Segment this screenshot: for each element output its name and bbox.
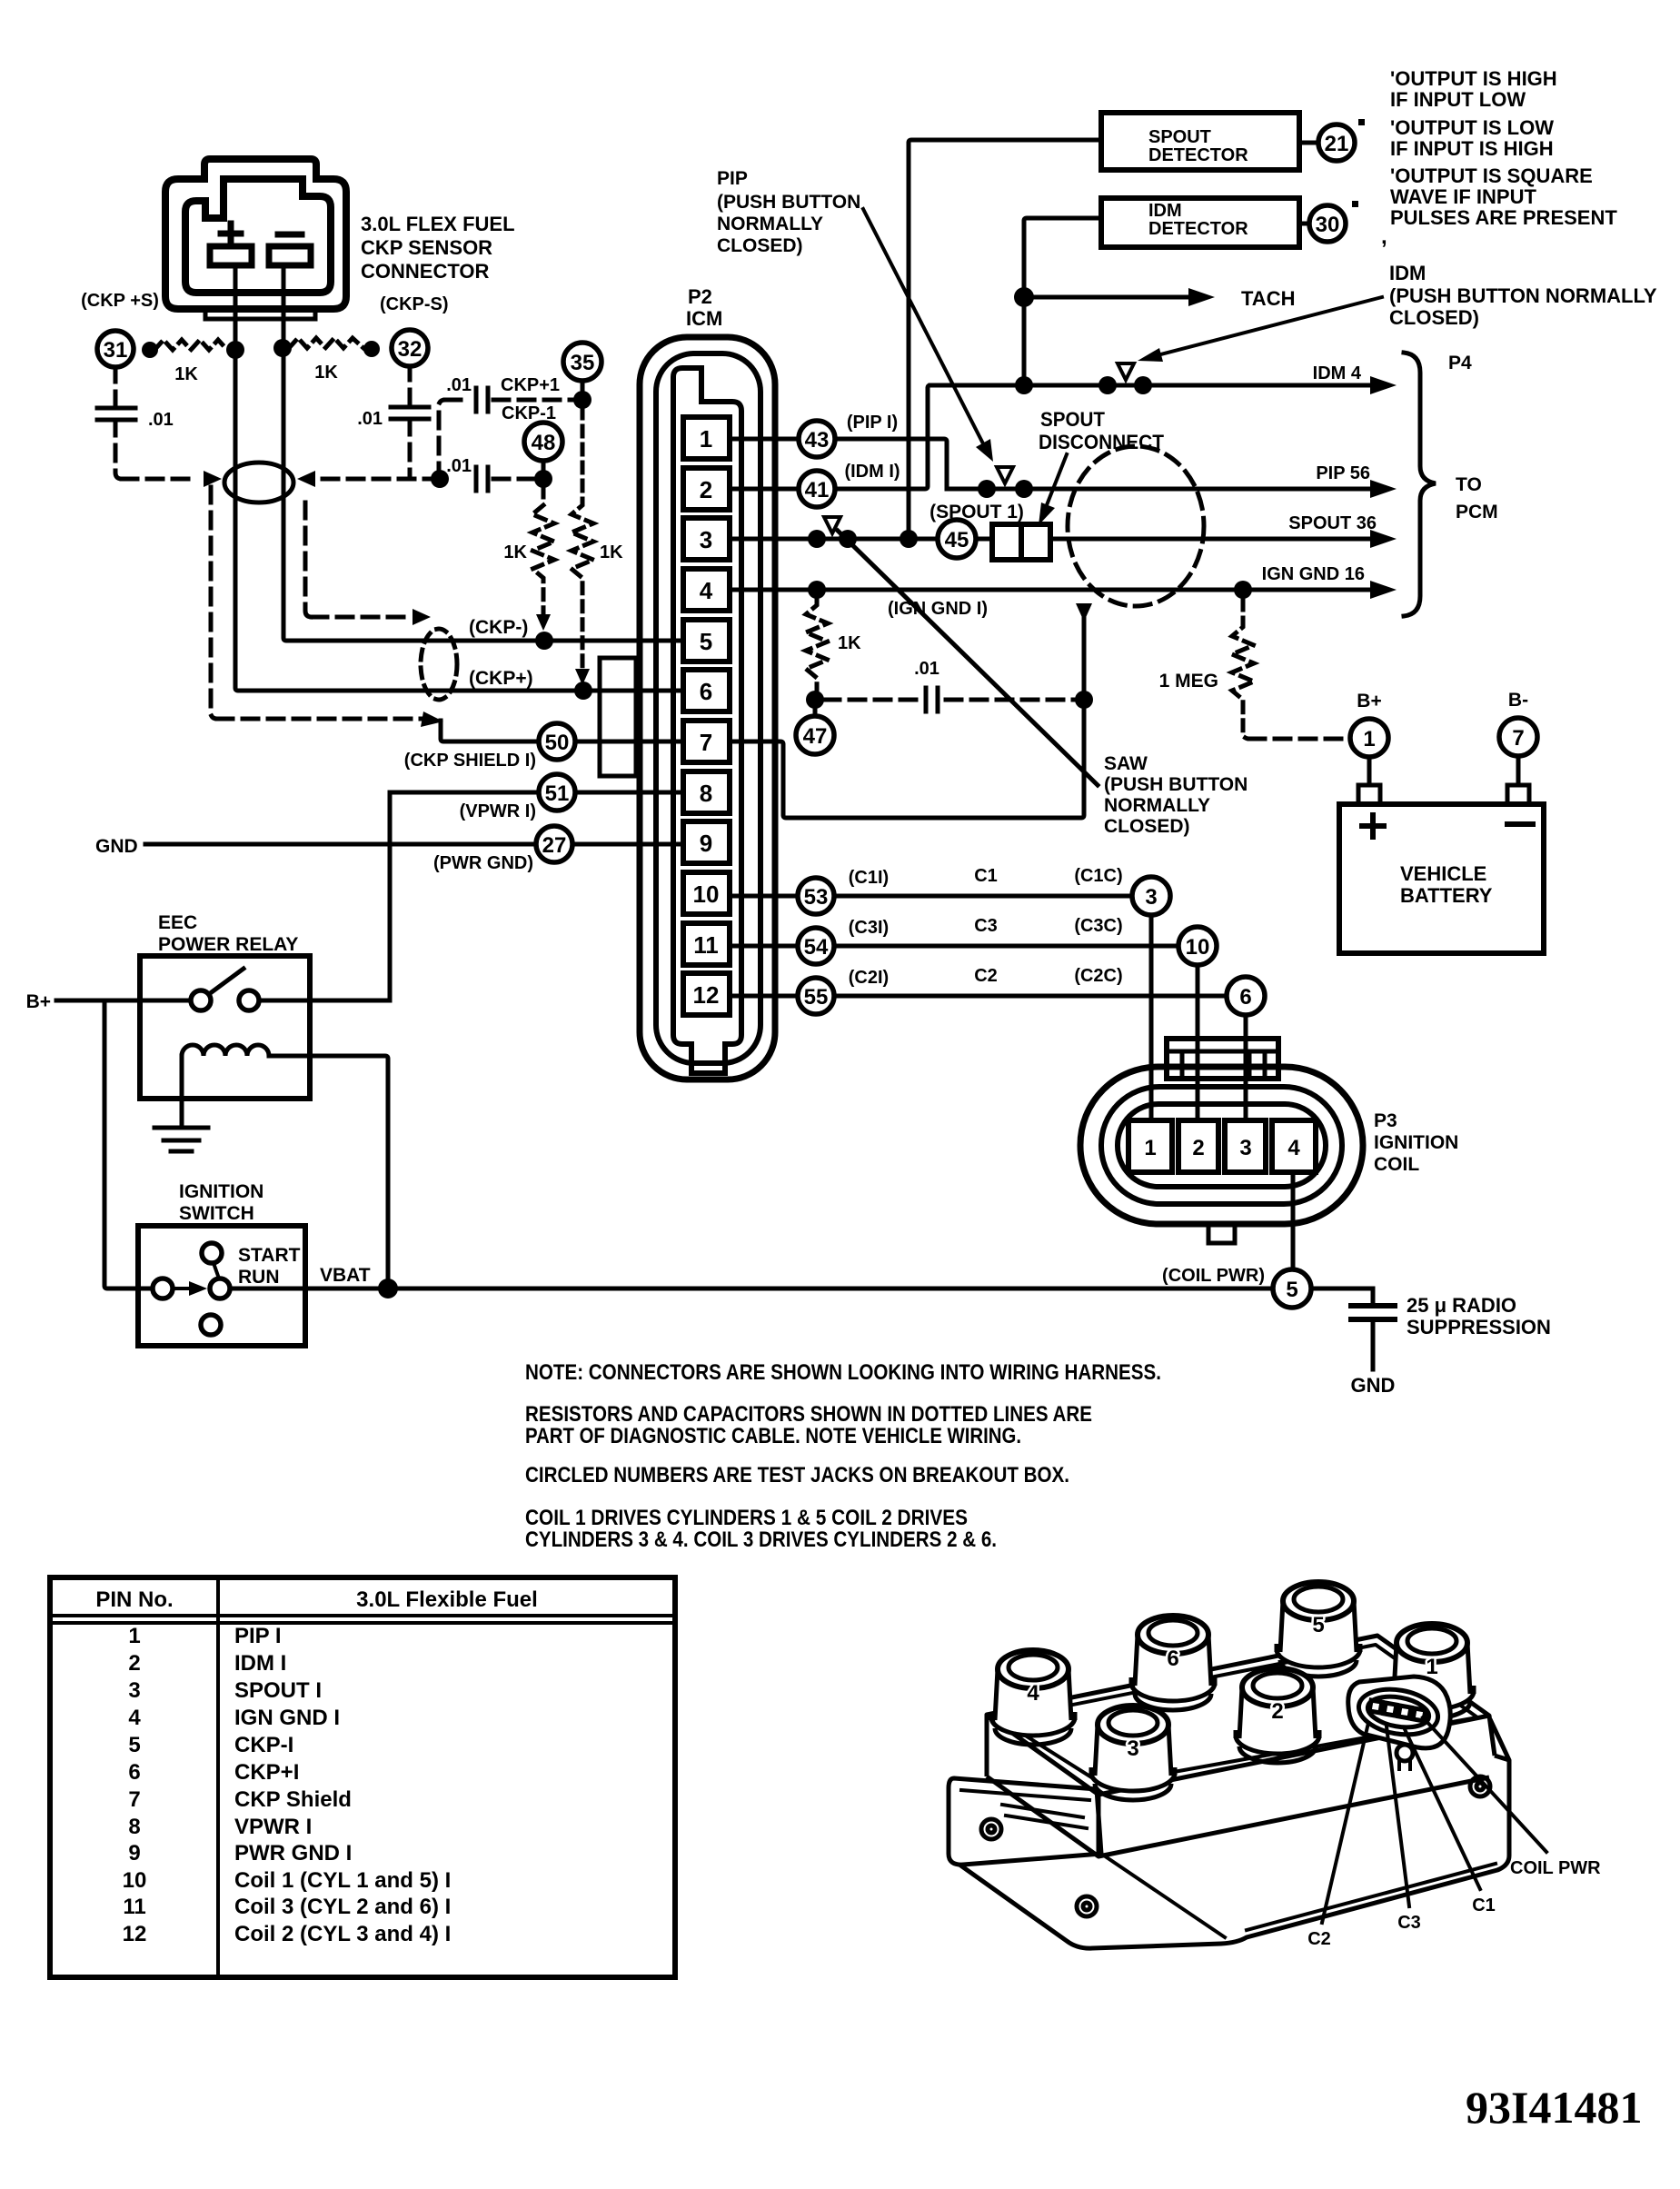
battery minus mark [1507,821,1533,827]
connector P1 CKP sensor inner face with keyway [185,179,331,293]
test jack 50 [539,723,575,760]
coil pack front lower edge [987,1776,1489,1856]
relay coil lead to ground [180,1056,184,1128]
svg-text:3: 3 [1145,885,1157,910]
svg-text:(C2I): (C2I) [849,968,889,988]
resistor 1 MEG dashed from IGN GND line [1232,600,1254,739]
minus symbol [278,232,302,238]
wire CKP shield from dashed arrow to jack 50 and P2 pin 7 [441,721,727,741]
svg-text:IGNITION: IGNITION [179,1181,263,1202]
capacitor .01 under jack 31 [97,408,135,420]
coil pack connector pod [1348,1677,1451,1769]
svg-text:B-: B- [1508,690,1528,711]
wire jack 10 down to coil pin 2 [1196,946,1200,1140]
P2 pin 12 box [683,973,730,1015]
svg-text:IGNITION: IGNITION [1374,1132,1458,1153]
junction dot below jack 48 [534,470,552,488]
svg-text:(C3I): (C3I) [849,918,889,938]
svg-text:1K: 1K [174,364,198,384]
leader line C1 [1405,1729,1480,1889]
svg-text:7: 7 [700,729,712,756]
svg-text:50: 50 [545,731,570,755]
svg-text:P2: P2 [688,285,712,308]
dashed bus segment toward twist oval right [313,477,440,482]
connector P2 middle shell [656,353,760,1063]
svg-text:CYLINDERS 3 & 4. COIL 3 DRIVES: CYLINDERS 3 & 4. COIL 3 DRIVES CYLINDERS… [525,1527,997,1552]
mounting tab inner line [961,1790,1089,1800]
wire pin 7 loop to shield drain [727,618,1084,818]
dashed CKP+1 line right part to jack 35 [493,398,576,403]
svg-text:32: 32 [398,337,422,362]
push button IDM contacts [1098,376,1117,394]
SPOUT DETECTOR box [1101,113,1299,170]
test jack 45 [938,520,976,558]
junction dot on CKP+ wire [226,341,244,359]
battery positive terminal [1358,785,1380,804]
SPOUT detector tap wire [909,140,1101,539]
svg-text:SPOUT: SPOUT [1148,127,1211,147]
junction dot VBAT [378,1279,398,1298]
svg-text:Coil 3 (CYL 2 and 6) I: Coil 3 (CYL 2 and 6) I [234,1895,451,1919]
test jack 10 [1178,927,1217,965]
dashed lead from jack 32 down [408,364,413,407]
svg-text:(IGN GND I): (IGN GND I) [888,599,988,619]
svg-text:IF INPUT IS HIGH: IF INPUT IS HIGH [1390,137,1554,160]
keying rectangle left of P2 [600,658,636,776]
svg-text:3: 3 [128,1678,140,1703]
svg-text:(C1I): (C1I) [849,868,889,888]
coil pin 1 cavity [1128,1120,1172,1172]
test jack 35 [563,343,601,381]
flange step line right [1247,1864,1496,1930]
svg-text:54: 54 [804,935,829,960]
coil pack top face [987,1636,1489,1795]
connector pod pins [1369,1700,1382,1713]
coil pack top face inner line [999,1645,1477,1785]
flange silhouette [959,1719,1509,1948]
svg-text:C3: C3 [1397,1913,1421,1933]
resistor 1K dashed from jack 48 bus to CKP- [532,487,554,616]
svg-text:6: 6 [1167,1647,1178,1671]
wire GND to pin 9 [145,842,727,847]
svg-text:CKP-I: CKP-I [234,1733,293,1757]
stub to jack 30 [1299,222,1310,226]
dashed shield inner run right [312,615,411,620]
coil pin 2 cavity [1178,1120,1218,1172]
svg-text:(CKP-S): (CKP-S) [380,294,449,314]
coil pack left edge [985,1715,989,1776]
brace P4 connector group [1404,353,1436,616]
footnote mark for 21 [1358,119,1365,125]
svg-text:(C1C): (C1C) [1074,866,1122,886]
wire pin 1 to jack 43 and jog to PIP line [727,439,947,489]
wire B+ into relay [56,999,191,1003]
svg-text:P3: P3 [1374,1110,1397,1131]
svg-text:C1: C1 [974,866,998,886]
wire CKP- from connector pin down and right to P2 pin 5 [283,265,727,641]
shield drain arrowhead [1076,603,1092,622]
screw hole tab [981,1819,1001,1839]
battery plus mark [1362,815,1384,837]
resistor 1K dashed below pin 4 line [806,600,828,692]
P2 pin 7 box [683,721,730,762]
junction dot right of resistor [363,341,380,357]
arrow onto CKP+ wire [575,669,590,685]
svg-text:Coil 2 (CYL 3 and 4) I: Coil 2 (CYL 3 and 4) I [234,1922,451,1946]
connector P3 top tab [1167,1039,1278,1079]
svg-text:1K: 1K [838,633,861,653]
junction dot left of resistor [142,342,158,358]
svg-text:35: 35 [571,351,595,375]
svg-text:EEC: EEC [158,912,197,933]
svg-text:SWITCH: SWITCH [179,1203,254,1224]
svg-text:1K: 1K [503,542,527,562]
svg-text:6: 6 [700,678,712,705]
link START to RUN [214,1263,219,1279]
connector stud [1397,1745,1413,1761]
leader line PIP label to push button [863,209,987,451]
resistor 1K dashed between CKP- wire and jack 32 [289,338,363,348]
svg-text:10: 10 [693,881,720,908]
arrow into pair twist [413,609,431,625]
lead from jack 48 [542,459,546,474]
svg-text:POWER RELAY: POWER RELAY [158,934,298,955]
svg-text:(COIL PWR): (COIL PWR) [1162,1266,1265,1286]
svg-text:PIP I: PIP I [234,1624,282,1648]
leader line C2 [1322,1723,1368,1923]
svg-text:(CKP +S): (CKP +S) [81,291,159,311]
arrowhead IGN GND 16 [1370,581,1397,599]
svg-text:9: 9 [128,1841,140,1866]
wire VBAT line from ignition switch to jack 5 and capacitor [230,1287,1373,1291]
IDM DETECTOR box [1101,198,1299,247]
SPOUT disconnect divider [1019,524,1024,560]
svg-text:CKP-1: CKP-1 [502,403,556,423]
svg-text:COIL 1 DRIVES CYLINDERS 1 & 5: COIL 1 DRIVES CYLINDERS 1 & 5 COIL 2 DRI… [525,1506,968,1530]
relay switch contact right [239,990,259,1010]
P2 pin 4 box [683,569,730,611]
wire pin 12 to jack 55 and ignition coil jack 6 [727,994,1227,999]
svg-text:4: 4 [1287,1136,1300,1160]
svg-text:12: 12 [693,981,720,1009]
dashed shield run to CKP shield wire [217,717,422,721]
plus symbol [221,224,241,244]
svg-text:GND: GND [95,836,138,857]
test jack 48 [524,423,562,461]
svg-text:COIL: COIL [1374,1154,1419,1175]
dashed lead from jack 31 down [114,366,118,408]
svg-text:IDM: IDM [1389,262,1426,284]
flange step line [1101,1854,1225,1937]
EEC power relay box [140,956,310,1099]
svg-text:,: , [1381,224,1387,249]
svg-text:SAW: SAW [1104,753,1148,774]
svg-text:CKP+I: CKP+I [234,1760,299,1785]
svg-text:CONNECTOR: CONNECTOR [361,260,489,283]
svg-text:21: 21 [1325,132,1349,156]
radio suppression capacitor lead down [1371,1289,1376,1306]
svg-text:SPOUT I: SPOUT I [234,1678,322,1703]
svg-text:31: 31 [104,338,128,363]
leader arrowhead [976,439,993,462]
svg-text:(CKP SHIELD I): (CKP SHIELD I) [404,751,536,771]
svg-text:RUN: RUN [238,1267,280,1288]
test jack 51 [539,774,575,811]
junction dot SPOUT tap [900,530,918,548]
svg-text:IGN GND 16: IGN GND 16 [1262,564,1365,584]
push button SAW plunger triangle [824,517,840,533]
svg-text:SPOUT: SPOUT [1040,408,1106,431]
connector P2 outer shell [640,337,775,1080]
pin table column divider [216,1577,220,1977]
relay switch contact left [191,990,211,1010]
svg-text:.01: .01 [357,409,383,429]
svg-text:6: 6 [128,1760,140,1785]
svg-text:1K: 1K [600,542,623,562]
junction dot on diagnostic bus [431,470,449,488]
footnote mark for 30 [1352,201,1358,207]
svg-text:11: 11 [123,1895,145,1919]
svg-text:(CKP-): (CKP-) [469,617,528,638]
resistor 1K dashed from jack 35 to CKP+ [572,408,593,672]
leader line C3 [1387,1726,1409,1906]
svg-text:PART OF DIAGNOSTIC CABLE. NOTE: PART OF DIAGNOSTIC CABLE. NOTE VEHICLE W… [525,1424,1021,1448]
dashed lead from capacitor to bus [408,419,413,479]
junction dot on CKP- wire [273,339,292,357]
coil tower 6 [1131,1616,1215,1710]
svg-text:5: 5 [1286,1278,1297,1302]
svg-text:(PIP I): (PIP I) [847,413,898,433]
resistor 1K dashed between jack 31 and CKP+ wire [154,340,227,350]
svg-text:12: 12 [123,1922,147,1946]
battery negative stem [1516,756,1521,785]
svg-text:IF INPUT LOW: IF INPUT LOW [1390,88,1526,111]
dashed capacitor line to shield drain [946,698,1077,702]
battery jack 7 [1499,718,1537,756]
leader line COIL PWR [1423,1717,1546,1852]
svg-text:C2: C2 [974,966,998,986]
svg-text:11: 11 [693,931,719,959]
svg-text:4: 4 [128,1706,141,1730]
dashed lead from capacitor to bus [115,420,122,479]
svg-text:(IDM I): (IDM I) [844,462,900,482]
flange right top edge [1495,1756,1509,1760]
wire IDM 4 line to PCM arrow [930,383,1374,388]
P2 pin 8 box [683,771,730,813]
arrow into twist oval left [204,471,222,487]
svg-text:7: 7 [1512,726,1524,751]
svg-text:Coil 1 (CYL 1 and 5) I: Coil 1 (CYL 1 and 5) I [234,1868,451,1893]
svg-text:2: 2 [700,476,712,503]
svg-text:B+: B+ [1357,691,1381,711]
dashed diagnostic bus to twist oval left [122,477,198,482]
test jack 43 [799,421,835,457]
svg-text:CKP SENSOR: CKP SENSOR [361,236,492,259]
leader line SAW label [838,531,1098,785]
svg-text:.01: .01 [914,659,939,679]
battery jack 1 [1350,719,1388,757]
arrow onto shield wire [421,711,443,727]
ignition switch OFF contact [201,1315,221,1335]
svg-text:10: 10 [123,1868,147,1893]
svg-text:PWR GND I: PWR GND I [234,1841,352,1866]
dashed branch up to CKP+1 line [439,400,445,479]
svg-text:CKP Shield: CKP Shield [234,1787,352,1812]
svg-text:1K: 1K [314,363,338,383]
svg-text:27: 27 [542,833,567,858]
svg-text:WAVE IF INPUT: WAVE IF INPUT [1390,185,1536,208]
arrow into twist oval right [297,471,315,487]
relay coil lead to VBAT riser [269,1056,388,1289]
svg-text:5: 5 [128,1733,140,1757]
test jack 54 [798,928,834,964]
push button PIP contacts [978,480,996,498]
svg-text:3.0L FLEX FUEL: 3.0L FLEX FUEL [361,213,515,235]
svg-text:5: 5 [1312,1613,1324,1637]
leader arrowhead [1138,348,1163,362]
test jack 27 [536,826,572,862]
svg-text:51: 51 [545,781,570,806]
test jack 31 [97,331,134,367]
svg-text:1: 1 [1426,1655,1437,1679]
svg-text:IDM: IDM [1148,201,1182,221]
relay switch blade [209,969,244,994]
test jack 3 [1132,877,1170,915]
dashed bus segment to jack 48 dot [493,477,536,482]
svg-text:93I41481: 93I41481 [1466,2082,1642,2133]
TACH branch wire [1024,295,1192,300]
P2 pin 2 box [683,468,730,510]
svg-text:3.0L Flexible Fuel: 3.0L Flexible Fuel [356,1587,538,1612]
arrowhead TACH [1188,288,1215,306]
svg-text:DISCONNECT: DISCONNECT [1039,431,1165,453]
svg-text:45: 45 [945,528,969,552]
svg-text:C3: C3 [974,916,998,936]
svg-text:C2: C2 [1307,1929,1331,1949]
svg-text:C1: C1 [1472,1895,1496,1915]
svg-text:43: 43 [805,428,830,453]
svg-text:.01: .01 [446,375,472,395]
twisted pair oval symbol [224,463,293,502]
svg-text:'OUTPUT IS SQUARE: 'OUTPUT IS SQUARE [1390,164,1593,187]
svg-text:1: 1 [1363,727,1375,751]
svg-text:25 μ RADIO: 25 μ RADIO [1407,1294,1516,1317]
capacitor .01 on CKP+1 line [476,388,488,412]
svg-text:48: 48 [532,431,556,455]
svg-text:PIN No.: PIN No. [95,1587,173,1612]
arrow onto CKP- wire [536,614,551,631]
P2 pin 11 box [683,923,730,965]
svg-text:VPWR I: VPWR I [234,1815,312,1839]
svg-text:SPOUT 36: SPOUT 36 [1288,513,1377,533]
svg-text:41: 41 [805,478,830,502]
mounting tab slots [1002,1805,1087,1828]
arrowhead SPOUT 36 [1370,530,1397,548]
svg-text:(VPWR I): (VPWR I) [460,801,536,821]
test jack 32 [392,330,428,366]
svg-text:.01: .01 [148,410,174,430]
svg-text:NORMALLY: NORMALLY [717,214,823,234]
wire jack 6 down to coil pin 3 [1244,996,1248,1140]
svg-text:DETECTOR: DETECTOR [1148,219,1248,239]
battery positive stem [1367,757,1372,785]
junction dot on CKP- wire [535,632,553,650]
wire coil pin 4 down to jack 5 [1291,1172,1296,1272]
svg-text:PCM: PCM [1456,502,1498,522]
battery negative terminal [1507,785,1529,804]
svg-text:PIP 56: PIP 56 [1316,463,1370,483]
capacitor .01 [926,688,938,711]
test jack 21 [1318,124,1355,161]
P2 pin 9 box [683,821,730,863]
coil pack front corner edge [1097,1795,1101,1856]
connector P3 middle oval [1101,1087,1342,1204]
svg-text:VBAT: VBAT [320,1265,371,1286]
dashed shield inner run down [305,502,312,617]
svg-text:7: 7 [128,1787,140,1812]
svg-text:4: 4 [700,577,713,604]
svg-text:CKP+1: CKP+1 [501,375,560,395]
wire B+ branch down to ignition switch [104,1000,153,1289]
capacitor .01 on bus to jack 48 [476,467,488,491]
ignition switch box [138,1226,305,1346]
svg-text:B+: B+ [26,991,51,1012]
coil pin 4 cavity [1272,1120,1316,1172]
wire pin 11 to jack 54 and ignition coil jack 10 [727,944,1178,949]
junction dot on IGN GND line [1234,581,1252,599]
connector P1 base flange [205,309,315,319]
leader arrowhead [1039,502,1055,525]
svg-text:'OUTPUT IS HIGH: 'OUTPUT IS HIGH [1390,67,1557,90]
ignition switch input contact [153,1279,173,1298]
svg-text:TO: TO [1456,474,1482,495]
svg-text:SUPPRESSION: SUPPRESSION [1407,1316,1551,1338]
svg-text:P4: P4 [1448,353,1472,373]
mounting tab left [949,1778,1101,1865]
test jack 30 [1309,205,1346,242]
wire pin 2 to jack 41 and jog up to IDM 4 line [727,385,930,489]
svg-text:GND: GND [1351,1374,1396,1397]
push button PIP plunger triangle [997,467,1013,483]
ignition switch arrow [174,1287,193,1290]
coil tower 4 [991,1650,1075,1745]
pin table outer border [50,1577,675,1977]
svg-text:30: 30 [1316,213,1340,237]
svg-text:IDM I: IDM I [234,1651,286,1676]
radio suppression capacitor plates [1351,1306,1395,1319]
svg-text:PULSES ARE PRESENT: PULSES ARE PRESENT [1390,206,1617,229]
capacitor lead to GND [1371,1319,1376,1369]
connector P1 CKP sensor outer shell [165,159,346,309]
svg-text:10: 10 [1186,935,1210,960]
svg-text:PIP: PIP [717,168,748,189]
connector P3 outer oval [1080,1067,1363,1224]
svg-text:1: 1 [700,425,712,453]
junction dot on IGN GND line [808,581,826,599]
test jack 53 [798,878,834,914]
wire jack 3 down to coil pin 1 [1149,896,1154,1140]
dashed capacitor line from 47 node [824,698,918,702]
wire CKP+ from connector pin down and right to P2 pin 6 [235,265,727,691]
dashed shield run down-left side [211,487,217,719]
ignition coil pack drawing [949,1636,1509,1948]
coil tower 1 [1390,1624,1474,1718]
svg-text:BATTERY: BATTERY [1400,884,1493,907]
svg-text:5: 5 [700,628,712,655]
coil tower 5 [1277,1582,1360,1677]
push button IDM plunger triangle [1118,363,1134,380]
svg-text:NORMALLY: NORMALLY [1104,795,1210,816]
